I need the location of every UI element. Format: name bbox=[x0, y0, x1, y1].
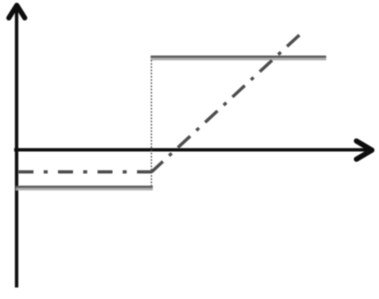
y-axis shaft bbox=[15, 9, 18, 288]
dash-dot line diagonal segment bbox=[152, 35, 300, 172]
dash-dot line horizontal segment bbox=[17, 170, 152, 173]
dotted step connector bbox=[150, 60, 152, 186]
x-axis shaft bbox=[14, 148, 369, 151]
step function high segment (gray) bbox=[151, 56, 327, 59]
x-axis arrowhead bbox=[356, 141, 372, 159]
step function low segment (gray) bbox=[16, 186, 153, 189]
y-axis arrowhead bbox=[9, 5, 25, 18]
